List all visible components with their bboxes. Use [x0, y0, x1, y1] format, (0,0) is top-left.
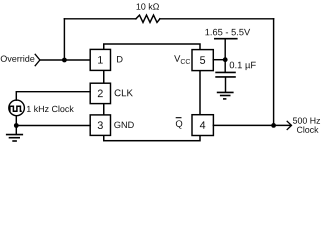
wire: supply stem down through Vcc node to capacitor — [224, 39, 226, 72]
input port chevron: Override — [35, 54, 40, 65]
capacitor C1 0.1 uF plates — [215, 72, 236, 77]
label: Clock (output, second line) — [297, 126, 319, 132]
label: Vcc — [174, 55, 190, 64]
label: CLK — [115, 89, 133, 96]
wire: pin 5 to Vcc node — [213, 59, 225, 61]
pin 1 box — [90, 49, 110, 70]
label: D — [117, 56, 123, 62]
pin 5 box — [192, 50, 213, 71]
node: output junction dot — [271, 123, 276, 128]
wire: pin 4 to output arrow — [213, 124, 291, 126]
node: Vcc junction dot — [223, 57, 228, 62]
wire: left vertical from top wire to Override junction — [63, 19, 65, 60]
pin 3 box — [90, 115, 110, 135]
label: 1.65 - 5.5V — [205, 29, 250, 36]
label: 0.1 uF — [230, 62, 256, 71]
wire: capacitor to ground — [225, 78, 227, 92]
wire: Override input to pin 1 — [40, 59, 90, 61]
wire: top-right horizontal — [160, 18, 274, 20]
pin 1 number — [98, 56, 103, 63]
pin 3 number — [98, 121, 103, 129]
resistor R1 10 kOhm zigzag — [136, 15, 160, 22]
label: 10 kOhm — [137, 3, 159, 10]
pin 4 number — [200, 121, 205, 128]
wire: top-left horizontal — [64, 18, 135, 20]
ground symbol (capacitor) — [217, 92, 234, 99]
node: Override junction dot — [62, 58, 67, 63]
IC body U1 — [104, 44, 200, 141]
clock source square-wave glyph — [9, 106, 22, 111]
label: 500 Hz — [293, 117, 320, 123]
label: Q-bar — [176, 120, 182, 128]
overbar of Q-bar label — [176, 117, 182, 119]
label: 1 kHz Clock — [27, 106, 74, 113]
wire: clock junction to pin 3 — [16, 125, 90, 127]
pin 4 box — [192, 115, 213, 136]
node: clock/ground junction dot — [14, 123, 19, 128]
label: GND — [114, 122, 134, 129]
ground symbol (clock source) — [6, 135, 23, 141]
output arrowhead — [287, 121, 291, 129]
clock source G1 circle — [9, 100, 25, 116]
label: Override — [1, 55, 35, 62]
pin 2 number — [98, 90, 103, 98]
wire: right vertical from top wire to output junction — [273, 19, 275, 126]
pin 2 box — [90, 83, 110, 103]
supply rail bar 1.65-5.5V — [214, 38, 238, 40]
wire: clock source bottom stem to ground — [15, 116, 17, 134]
pin 5 number — [200, 56, 205, 64]
wire: clock source top stem to CLK pin 2 — [16, 92, 90, 101]
